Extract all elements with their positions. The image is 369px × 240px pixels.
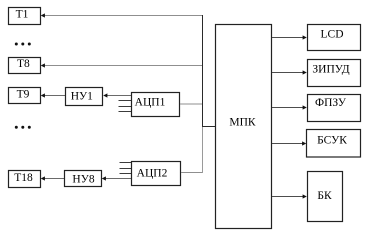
svg-text:АЦП2: АЦП2 xyxy=(137,168,168,180)
wire ADC2 to NU8 xyxy=(106,178,132,180)
wire ADC1 input stub 4 xyxy=(119,111,132,113)
block NU8 xyxy=(65,171,102,187)
block NU1 xyxy=(66,88,103,106)
block T8 xyxy=(9,58,41,74)
block T1 xyxy=(9,8,41,25)
block LCD xyxy=(308,25,361,51)
ellipsis between T9 and T18 xyxy=(15,126,18,129)
block T9 xyxy=(9,88,41,104)
wire ADC2 input stub 1 xyxy=(120,162,132,164)
block T18 xyxy=(9,171,41,188)
block MPK xyxy=(216,25,272,229)
wire MPK to LCD xyxy=(272,37,303,39)
svg-text:БСУК: БСУК xyxy=(317,135,347,147)
svg-text:МПК: МПК xyxy=(229,117,256,129)
svg-text:Т9: Т9 xyxy=(17,89,30,101)
svg-text:БК: БК xyxy=(317,190,332,202)
svg-text:Т8: Т8 xyxy=(17,58,30,70)
wire ADC1 output to bus xyxy=(180,103,203,105)
wire ADC2 input stub 3 xyxy=(120,173,132,175)
wire vertical bus lower xyxy=(202,127,204,174)
wire bus to T8 xyxy=(45,65,204,67)
wire ADC1 input stub 2 xyxy=(119,100,132,102)
block BSUK xyxy=(307,130,361,158)
wire bus to T1 xyxy=(45,15,204,17)
wire vertical bus upper xyxy=(202,15,204,127)
ellipsis between T1 and T8 xyxy=(15,43,18,46)
svg-text:НУ1: НУ1 xyxy=(71,91,93,103)
svg-text:АЦП1: АЦП1 xyxy=(135,97,166,109)
wire ADC1 input stub 3 xyxy=(119,106,132,108)
svg-text:ЗИПУД: ЗИПУД xyxy=(312,64,349,76)
svg-text:ФПЗУ: ФПЗУ xyxy=(315,97,347,109)
svg-text:Т18: Т18 xyxy=(14,172,33,184)
wire MPK to ZIPUD xyxy=(272,72,303,74)
wire ADC2 input stub 2 xyxy=(120,168,132,170)
wire NU1 to T9 xyxy=(45,95,66,97)
wire ADC2 output to bus xyxy=(181,172,203,174)
svg-text:Т1: Т1 xyxy=(16,9,29,21)
wire ADC1 to NU1 xyxy=(107,95,132,97)
svg-text:LCD: LCD xyxy=(321,29,344,41)
block FPZU xyxy=(308,95,361,122)
block ADC2 xyxy=(132,162,181,186)
wire MPK to BK xyxy=(272,196,303,198)
svg-text:НУ8: НУ8 xyxy=(72,174,94,186)
block BK xyxy=(308,172,343,222)
wire MPK to BSUK xyxy=(272,143,303,145)
wire MPK to FPZU xyxy=(272,107,303,109)
block ZIPUD xyxy=(308,60,361,87)
wire NU8 to T18 xyxy=(45,178,65,180)
block ADC1 xyxy=(132,93,180,117)
wire bus stub into MPK xyxy=(202,126,216,128)
